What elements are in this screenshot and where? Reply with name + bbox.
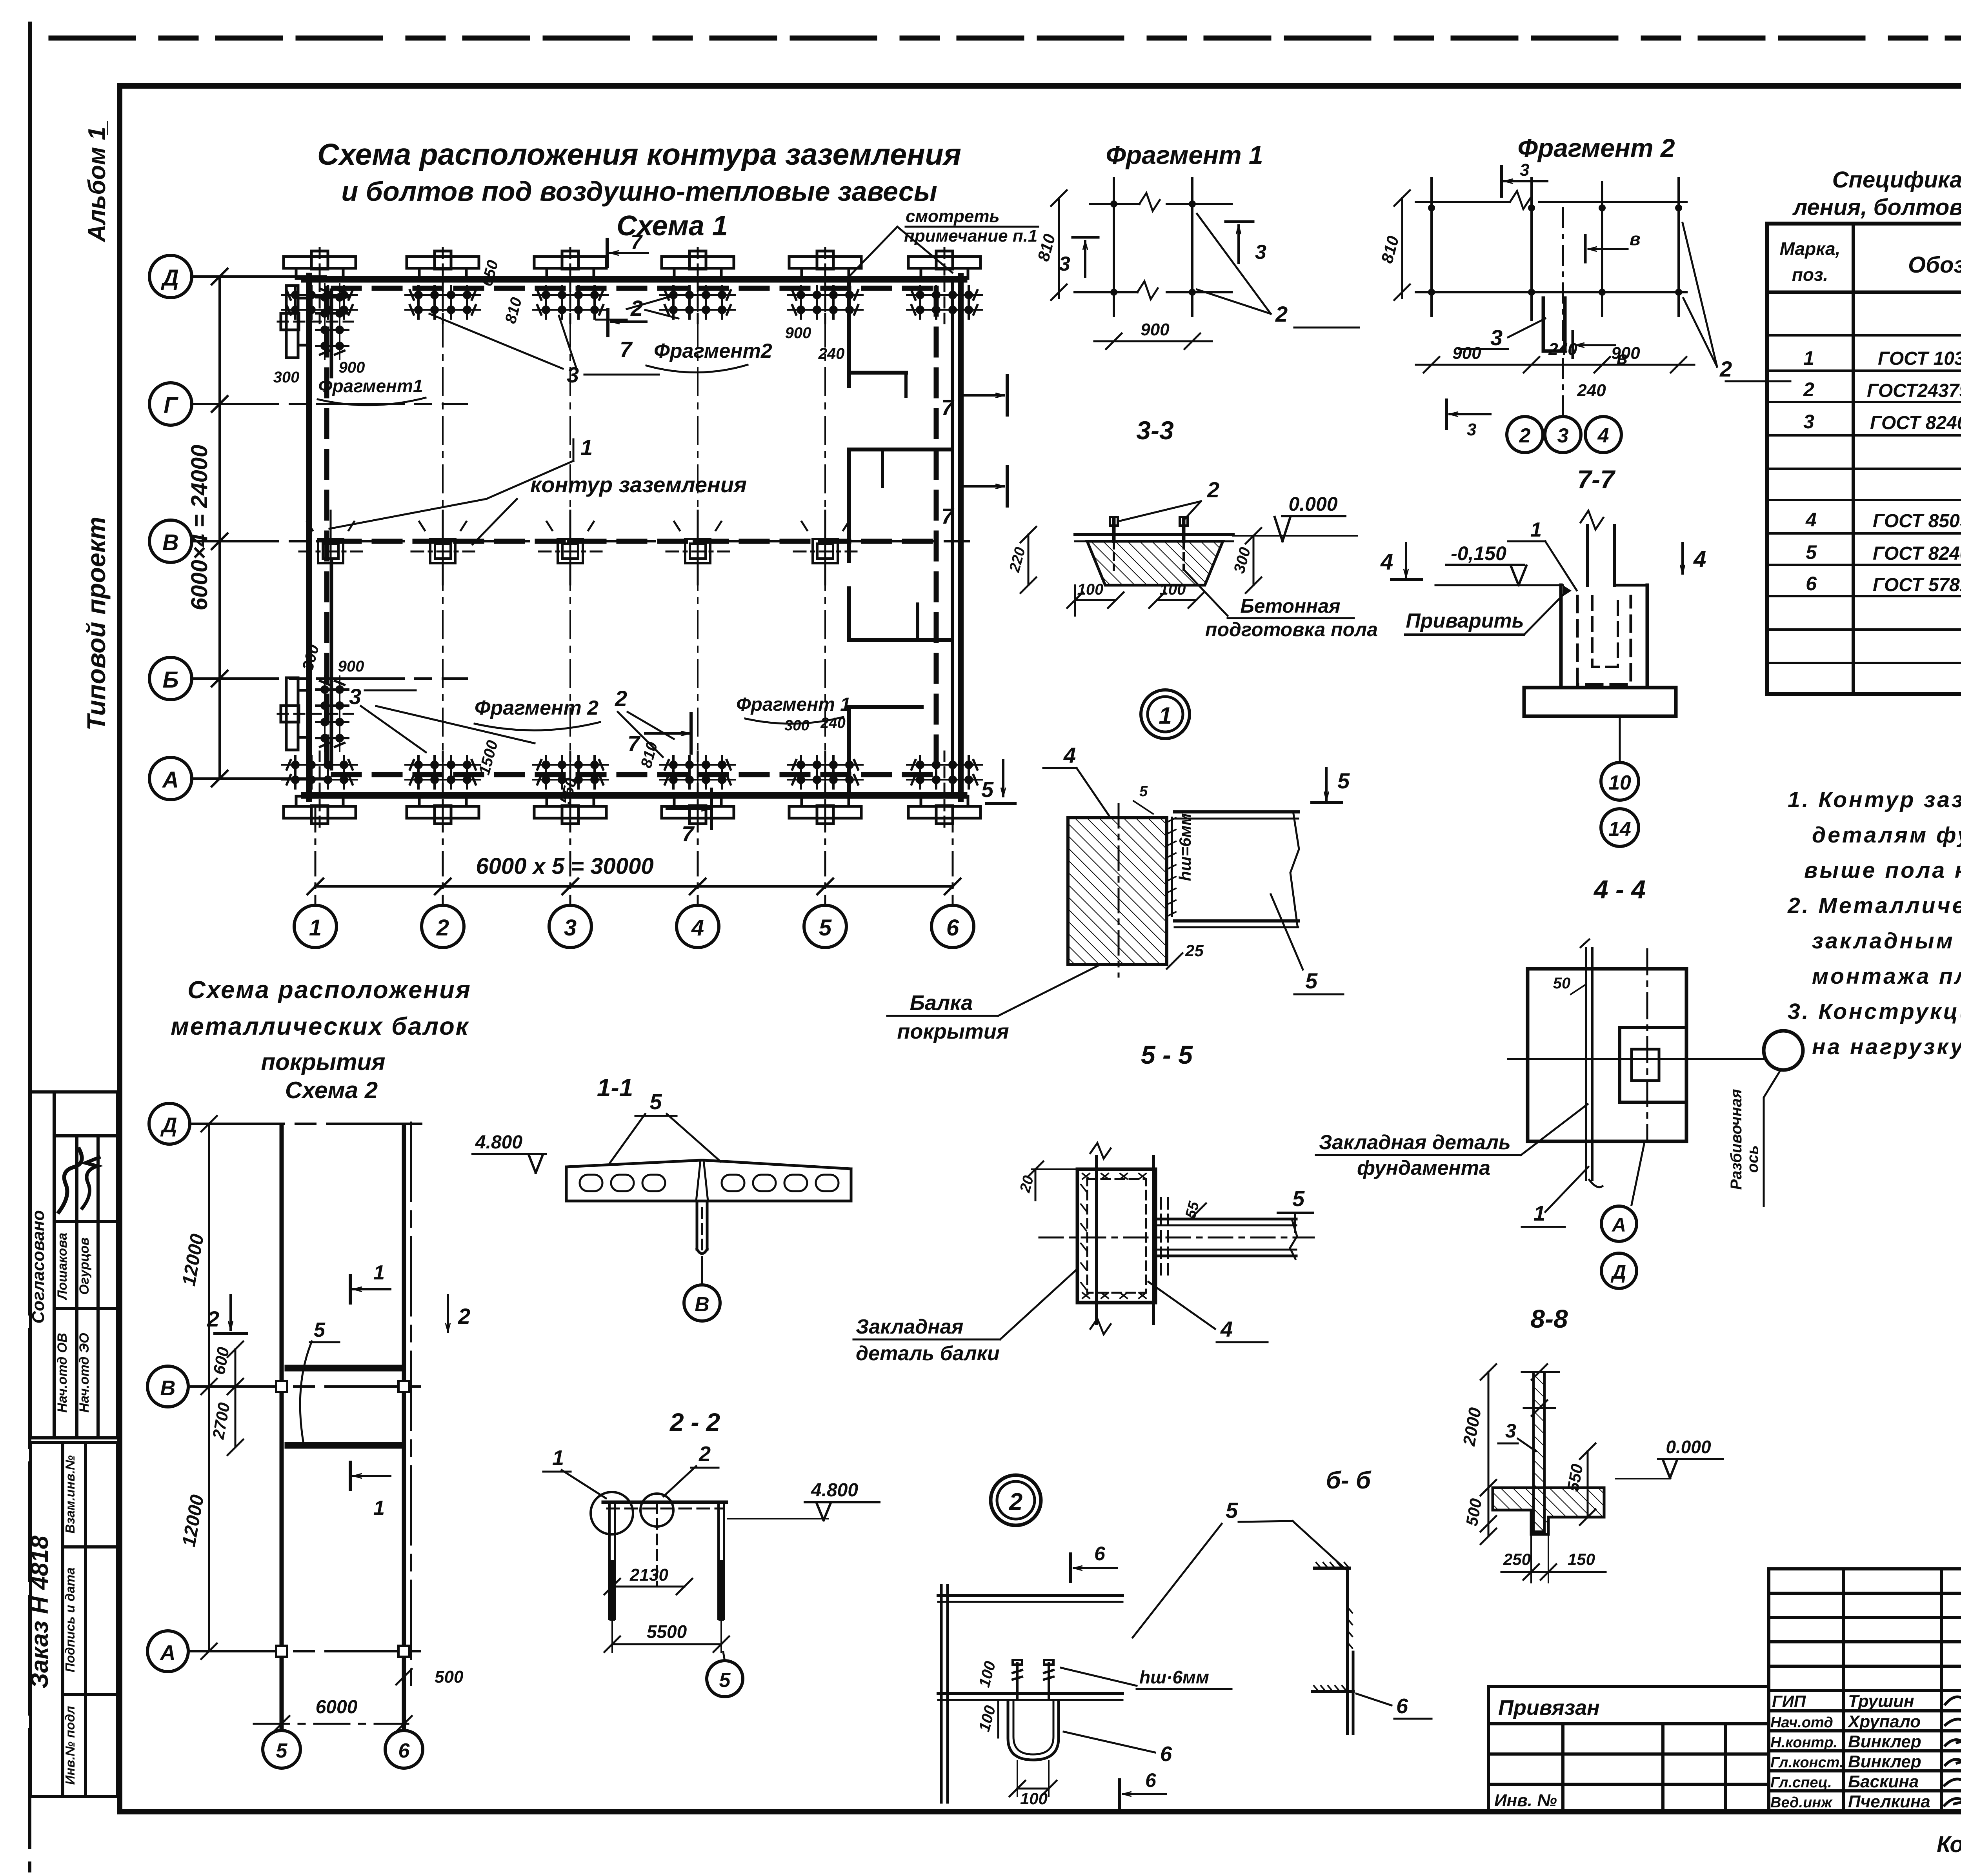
axis circle 5 of 2-2 <box>707 1652 743 1697</box>
weld seam on wall face <box>1168 818 1176 916</box>
svg-text:Винклер: Винклер <box>1848 1732 1921 1751</box>
bolt centreline <box>656 1503 658 1587</box>
svg-text:Н.контр.: Н.контр. <box>1770 1734 1837 1751</box>
svg-text:6: 6 <box>1145 1769 1157 1791</box>
svg-text:покрытия: покрытия <box>897 1020 1009 1043</box>
callout 3 top with V leaders <box>429 314 659 387</box>
callout 3 of post <box>1498 1420 1536 1451</box>
signature squiggle 2 <box>82 1157 99 1208</box>
axis circle Д <box>1601 1253 1637 1288</box>
svg-text:2: 2 <box>1275 302 1288 326</box>
left dim line schema2 <box>178 1116 217 1659</box>
section mark 2 down left <box>207 1295 246 1334</box>
anchor bolt right <box>1180 517 1188 570</box>
bolt group top axis2 <box>405 248 480 323</box>
svg-text:подготовка пола: подготовка пола <box>1205 619 1378 640</box>
beam break mark right <box>1290 1221 1297 1259</box>
spec table grid <box>1767 224 1961 694</box>
svg-text:Баскина: Баскина <box>1848 1772 1919 1791</box>
anchor pocket small <box>1632 1049 1659 1081</box>
svg-text:6000×4 = 24000: 6000×4 = 24000 <box>187 445 212 611</box>
svg-text:Согласовано: Согласовано <box>29 1210 48 1323</box>
svg-text:240: 240 <box>818 345 845 362</box>
svg-text:5: 5 <box>314 1319 326 1341</box>
svg-text:5: 5 <box>981 777 994 802</box>
svg-text:5500: 5500 <box>647 1621 687 1642</box>
svg-text:2: 2 <box>1207 477 1219 502</box>
svg-text:4.800: 4.800 <box>475 1132 522 1153</box>
callout 4 of plate <box>1148 1282 1268 1342</box>
svg-text:Пчелкина: Пчелкина <box>1848 1792 1930 1811</box>
fragment 1 dim 810 <box>1034 190 1067 300</box>
dim 100 rotated lower <box>976 1701 999 1738</box>
svg-text:Д: Д <box>1610 1261 1626 1283</box>
svg-text:hш·6мм: hш·6мм <box>1139 1667 1209 1687</box>
svg-text:4: 4 <box>691 915 704 941</box>
svg-text:5: 5 <box>719 1669 731 1692</box>
svg-text:деталь балки: деталь балки <box>856 1342 1000 1365</box>
svg-text:900: 900 <box>339 359 365 376</box>
grounding contour middle run (axis В) <box>333 539 937 544</box>
marker circle 10 <box>1601 762 1639 800</box>
svg-text:примечание п.1: примечание п.1 <box>904 226 1037 246</box>
callout 3 bottom <box>349 684 535 752</box>
left stamp: Заказ / Инв table <box>26 1443 118 1796</box>
svg-text:7-7: 7-7 <box>1577 465 1616 494</box>
fragment 2 axis circle 2 <box>1507 417 1543 453</box>
svg-text:4: 4 <box>1805 509 1817 531</box>
schema 2 title <box>171 976 471 1103</box>
dim 500 rotated <box>1462 1480 1496 1544</box>
section flag 7 right b <box>941 467 1007 528</box>
callout 2 bottom <box>615 686 674 757</box>
closure strip vertical <box>1581 939 1603 1187</box>
svg-text:3: 3 <box>1490 325 1503 350</box>
axis line А schema2 <box>188 1650 431 1652</box>
fragment 1 section mark 3 up right <box>1226 222 1266 264</box>
bolt group bottom axis3 <box>533 751 608 827</box>
axis circle А <box>149 757 192 800</box>
uzel bolts <box>1013 1660 1053 1698</box>
svg-text:Типовой проект: Типовой проект <box>82 517 111 731</box>
section flag 7 right a <box>941 376 1007 420</box>
spec row 5 <box>1806 541 1961 564</box>
node marker circled 2 <box>991 1475 1041 1525</box>
cross beams pos 5 <box>288 1365 400 1372</box>
bolt group top axis6 <box>907 248 982 323</box>
svg-text:2: 2 <box>615 686 627 711</box>
bottom axis stub 5 <box>824 808 826 904</box>
foundation hatch of post <box>1493 1488 1604 1534</box>
fragment 2 grid lines <box>1416 178 1686 320</box>
callout 5 of beam end <box>1278 1186 1313 1232</box>
fragment 2 callout 2 <box>1683 223 1790 381</box>
svg-text:900: 900 <box>1141 320 1170 339</box>
axis circle А schema2 <box>147 1631 188 1672</box>
level mark 0.000 <box>1233 493 1357 541</box>
position marker circled 1 <box>1141 690 1190 739</box>
svg-text:ГОСТ 8240- 72*: ГОСТ 8240- 72* <box>1873 543 1961 564</box>
svg-text:2: 2 <box>699 1442 711 1466</box>
callout 1 <box>543 1446 606 1498</box>
svg-text:Закладная: Закладная <box>856 1316 963 1338</box>
axis number circle 3 <box>549 905 591 948</box>
svg-text:4: 4 <box>1380 549 1393 575</box>
dim 100 rotated upper <box>976 1659 999 1689</box>
rooms wall horizontal 3 <box>849 638 952 642</box>
svg-text:А: А <box>1611 1214 1626 1236</box>
svg-text:2. Металлические балки (поз.: 2. Металлические балки (поз. 4,5) привар… <box>1787 893 1961 918</box>
svg-text:5: 5 <box>1139 783 1148 800</box>
axis circle В of section 1-1 <box>684 1285 720 1321</box>
svg-text:7: 7 <box>628 731 641 756</box>
axis number circle 1 <box>294 905 337 948</box>
svg-text:В: В <box>695 1293 709 1316</box>
label Закладная деталь балки <box>856 1316 1000 1365</box>
svg-text:Подпись и дата: Подпись и дата <box>63 1567 77 1672</box>
svg-text:4: 4 <box>1597 424 1609 447</box>
dim 100 bottom <box>1010 1761 1057 1808</box>
frame left leg <box>608 1502 611 1619</box>
section mark 5 down near axis6 <box>981 760 1015 803</box>
svg-text:3-3: 3-3 <box>1136 416 1173 445</box>
spec row 4 <box>1805 509 1961 531</box>
notes text block <box>1787 787 1961 1059</box>
svg-text:в: в <box>1630 229 1641 249</box>
svg-text:7: 7 <box>631 231 643 254</box>
fragment 1 section mark 3 up left <box>1059 237 1098 277</box>
svg-text:5: 5 <box>649 1089 662 1114</box>
axis circle Д <box>149 255 192 298</box>
section arrow 5 right of beam <box>1312 768 1350 802</box>
angle top flange <box>1315 1567 1349 1570</box>
beam flange lines to right <box>1155 1218 1296 1221</box>
label Фрагмент 2 bottom <box>475 697 600 730</box>
column shafts <box>1090 1143 1153 1334</box>
svg-text:5: 5 <box>1226 1498 1238 1523</box>
svg-text:Марка,: Марка, <box>1780 238 1841 259</box>
beam break mark <box>1290 814 1299 926</box>
spec row 6 <box>1806 573 1961 595</box>
svg-text:0.000: 0.000 <box>1288 493 1337 515</box>
signature squiggle 1 <box>59 1149 82 1212</box>
svg-text:3: 3 <box>1557 424 1569 447</box>
svg-text:и болтов под воздушно-тепловы: и болтов под воздушно-тепловые завесы <box>341 176 937 207</box>
svg-text:4 - 4: 4 - 4 <box>1593 875 1646 904</box>
callout 5 of beam <box>1271 894 1343 994</box>
dim 550 rotated <box>1563 1443 1595 1525</box>
building left wall <box>306 276 312 799</box>
svg-text:1: 1 <box>1803 347 1814 369</box>
section flag 6 top <box>1071 1543 1117 1581</box>
column plate axis В-3 <box>539 511 602 584</box>
svg-text:6: 6 <box>1806 573 1817 595</box>
svg-text:1: 1 <box>1530 519 1542 541</box>
riser line to marker circles <box>1619 718 1621 762</box>
bolt group top axis4 <box>660 248 735 323</box>
svg-text:6000: 6000 <box>316 1697 358 1718</box>
section arrow 4 left <box>1380 543 1422 580</box>
axis line В schema2 <box>188 1385 431 1388</box>
bottom axis stub 1 <box>315 808 317 904</box>
svg-text:2 - 2: 2 - 2 <box>669 1408 720 1436</box>
svg-text:3: 3 <box>349 684 361 709</box>
axis number circle 5 <box>804 905 846 948</box>
riser lines to circles 5 6 <box>281 1729 283 1730</box>
svg-text:б- б: б- б <box>1326 1467 1372 1494</box>
svg-text:1. Контур заземления (поз.1): 1. Контур заземления (поз.1) приварить к… <box>1788 787 1961 812</box>
svg-text:контур заземления: контур заземления <box>530 472 747 497</box>
rooms wall horizontal 1 <box>849 371 906 375</box>
centreline axis 6 <box>410 1123 412 1687</box>
axis line Б <box>192 677 467 680</box>
bolt group top axis3 <box>533 248 608 323</box>
plan column centerline axis3 <box>569 271 571 800</box>
beam line axis 5 <box>280 1125 284 1729</box>
svg-text:2: 2 <box>458 1304 470 1328</box>
svg-text:240: 240 <box>820 715 845 731</box>
bottom axis stub 2 <box>442 808 444 904</box>
svg-text:6: 6 <box>946 915 959 941</box>
svg-text:ГОСТ 5781- 82*: ГОСТ 5781- 82* <box>1873 575 1961 595</box>
hollow core slabs <box>566 1160 851 1201</box>
svg-text:3: 3 <box>1059 253 1070 275</box>
svg-text:4.800: 4.800 <box>811 1480 858 1501</box>
bolt group top axis5 <box>788 248 863 323</box>
svg-text:Фрагмент2: Фрагмент2 <box>654 340 772 362</box>
section flag 1 upper <box>350 1261 390 1303</box>
svg-text:25: 25 <box>1185 941 1204 960</box>
svg-text:В: В <box>162 530 179 555</box>
grounding contour left run <box>324 288 329 775</box>
svg-text:2: 2 <box>436 915 449 941</box>
column plate axis В-1 <box>299 511 362 584</box>
svg-text:3: 3 <box>567 362 579 387</box>
svg-text:Привязан: Привязан <box>1498 1696 1600 1720</box>
svg-text:Фрагмент 2: Фрагмент 2 <box>475 697 598 719</box>
building right wall <box>958 276 964 799</box>
fragment 2 section flag 3 top <box>1501 160 1547 196</box>
fragment 2 dim 810 <box>1377 190 1410 300</box>
bolt group left wall top (vertical) <box>278 284 353 359</box>
svg-text:6: 6 <box>1160 1742 1172 1766</box>
svg-text:Разбивочная: Разбивочная <box>1728 1089 1745 1190</box>
svg-text:7: 7 <box>941 504 955 528</box>
slab voids <box>580 1175 839 1191</box>
svg-text:1: 1 <box>552 1446 564 1470</box>
svg-text:3. Конструкция балки (поз.5): 3. Конструкция балки (поз.5) расчитана <box>1788 999 1961 1024</box>
room door stubs <box>881 449 884 486</box>
grounding contour top run <box>333 286 941 291</box>
svg-text:2: 2 <box>207 1306 219 1331</box>
svg-text:hш=6мм: hш=6мм <box>1176 813 1194 881</box>
spec row 3 <box>1803 411 1961 433</box>
axis line А <box>192 777 326 780</box>
centerline horizontal to marker <box>1508 1058 1763 1060</box>
U-bolt <box>1008 1701 1059 1760</box>
svg-text:900: 900 <box>338 658 364 675</box>
svg-text:2130: 2130 <box>629 1565 668 1585</box>
bottom dimension line 6000x5=30000 <box>307 853 960 894</box>
bolt group left wall bottom (vertical) <box>278 676 353 751</box>
svg-text:Бетонная: Бетонная <box>1240 595 1340 617</box>
svg-text:поз.: поз. <box>1792 264 1828 285</box>
svg-text:10: 10 <box>1608 772 1631 794</box>
svg-text:7: 7 <box>682 821 695 846</box>
signature squiggles <box>1945 1694 1961 1807</box>
svg-text:5: 5 <box>819 915 832 941</box>
svg-text:4: 4 <box>1220 1317 1233 1341</box>
section flag 7 top <box>607 231 648 267</box>
svg-text:3: 3 <box>1467 420 1476 439</box>
building bottom wall <box>304 792 964 799</box>
axis line В <box>192 540 969 542</box>
svg-text:14: 14 <box>1608 818 1631 841</box>
svg-text:покрытия: покрытия <box>261 1049 386 1075</box>
fragment 1 grid lines <box>1075 178 1232 316</box>
section flag 1 lower <box>350 1462 390 1519</box>
svg-text:3: 3 <box>1505 1420 1516 1442</box>
spec row 1 <box>1803 347 1961 369</box>
dim 220 rotated <box>1006 527 1036 593</box>
beam centreline <box>1039 1237 1314 1239</box>
svg-text:2: 2 <box>1009 1488 1022 1516</box>
foundation body 7-7 <box>1435 585 1676 716</box>
roof beam top flange <box>1175 810 1298 813</box>
fragment 2 bolt crosses <box>1428 204 1682 296</box>
dim 300 rotated <box>1231 528 1261 593</box>
label контур заземления with leaders <box>329 435 747 544</box>
svg-text:300: 300 <box>273 369 300 386</box>
section flag 6 bottom <box>1120 1769 1166 1807</box>
fragment 2 section mark в upper <box>1585 229 1641 262</box>
title block privyazan strip <box>1488 1687 1769 1811</box>
beam line axis 6 <box>402 1125 406 1729</box>
svg-text:Гл.конст.: Гл.конст. <box>1770 1754 1843 1771</box>
note callout смотреть примечание п.1 <box>848 207 1038 278</box>
svg-text:Фрагмент1: Фрагмент1 <box>318 376 423 396</box>
building top wall <box>304 276 964 283</box>
level 4.800 <box>473 1132 546 1173</box>
svg-text:150: 150 <box>1568 1550 1595 1568</box>
bottom axis stub 3 <box>569 808 571 904</box>
axis circle Г <box>149 383 192 425</box>
svg-text:3: 3 <box>564 915 577 941</box>
svg-text:900: 900 <box>1452 344 1481 363</box>
svg-text:Г: Г <box>164 393 178 418</box>
level -0,150 <box>1446 542 1526 585</box>
svg-text:Схема расположения контура заз: Схема расположения контура заземления <box>317 138 961 171</box>
post plate hatched <box>1534 1372 1544 1532</box>
svg-text:6: 6 <box>1094 1543 1106 1565</box>
riser to axis circle В <box>701 1257 703 1285</box>
fragment 2 channel pos3 <box>1543 298 1565 351</box>
callout 6 of U-bolt <box>1064 1732 1172 1766</box>
fragment 2 axis circle 3 <box>1545 417 1581 453</box>
bolt group bottom axis4 <box>660 751 735 827</box>
svg-text:Хрупало: Хрупало <box>1847 1712 1921 1731</box>
svg-text:4: 4 <box>1693 546 1706 572</box>
frame top beam <box>603 1501 726 1504</box>
svg-text:А: А <box>162 767 179 793</box>
axis circle Д schema2 <box>149 1103 190 1144</box>
column plate axis В-4 <box>666 511 729 584</box>
dim 2130 <box>604 1565 692 1594</box>
anchor bolt left <box>1110 517 1118 570</box>
callout 2 of section 3-3 <box>1120 477 1219 521</box>
uzel beam left column <box>941 1585 948 1802</box>
svg-text:Трушин: Трушин <box>1848 1692 1914 1711</box>
roof beam bottom flange <box>1175 919 1298 923</box>
plan column centerline axis2 <box>442 271 444 800</box>
svg-text:1: 1 <box>1534 1202 1545 1225</box>
section flag 7 below plan <box>667 789 711 846</box>
svg-text:900: 900 <box>785 324 811 342</box>
centerline vertical <box>1646 949 1648 1142</box>
uzel beam top flange <box>938 1594 1122 1597</box>
svg-text:5: 5 <box>276 1740 288 1762</box>
svg-text:Альбом 1̲: Альбом 1̲ <box>84 121 111 243</box>
column shaft above foundation <box>1581 511 1614 585</box>
svg-text:ось: ось <box>1744 1145 1761 1173</box>
svg-text:1: 1 <box>373 1497 385 1519</box>
axis number circle 6 <box>931 905 974 948</box>
svg-text:3: 3 <box>1255 241 1266 264</box>
svg-text:100: 100 <box>1077 581 1104 598</box>
svg-text:2: 2 <box>1519 424 1531 447</box>
label Фрагмент1 top-left <box>318 376 426 405</box>
rooms wall horizontal 4 <box>849 705 922 709</box>
slab top lines <box>1075 533 1233 536</box>
column plate axis В-2 <box>411 511 474 584</box>
level 4.800 of 2-2 <box>728 1480 879 1520</box>
dim 5500 <box>604 1620 729 1652</box>
dim 2000 rotated <box>1459 1364 1496 1532</box>
callout 4 to wall <box>1043 743 1109 816</box>
angle profile web <box>1346 1568 1349 1734</box>
left wall inner leaf <box>330 290 333 377</box>
axis circle В schema2 <box>147 1366 188 1407</box>
axis line Д schema2 <box>190 1123 427 1125</box>
foundation plate plan <box>1528 969 1686 1141</box>
svg-text:2: 2 <box>1803 378 1814 400</box>
dim 100 left <box>1067 581 1124 616</box>
svg-text:ГОСТ 8240-72*: ГОСТ 8240-72* <box>1870 413 1961 433</box>
svg-text:250: 250 <box>1503 1550 1531 1568</box>
fragment 1 dim 900 <box>1094 320 1212 349</box>
fragment 2 callout 3 <box>1459 318 1545 350</box>
axis circle 6 schema2 <box>385 1730 423 1768</box>
svg-text:240: 240 <box>1577 381 1606 400</box>
callout circle on left joint <box>591 1492 633 1534</box>
inner pocket <box>1620 1028 1686 1102</box>
axis circle Б <box>149 657 192 700</box>
svg-text:Схема 2: Схема 2 <box>285 1077 378 1103</box>
svg-text:Схема расположения: Схема расположения <box>187 976 471 1004</box>
svg-text:7: 7 <box>620 337 633 362</box>
callout 1 of strip <box>1522 1167 1588 1227</box>
svg-text:Огурцов: Огурцов <box>77 1237 92 1295</box>
fragment 2 axis stub to circle 3 <box>1562 208 1564 416</box>
dim 500 schema2 <box>396 1663 464 1690</box>
label Приварить <box>1405 593 1565 635</box>
concrete hatch body <box>1087 541 1223 585</box>
svg-text:1: 1 <box>373 1261 385 1284</box>
dim 6000 schema2 <box>254 1697 412 1732</box>
svg-text:Приварить: Приварить <box>1406 610 1524 632</box>
svg-text:1: 1 <box>1159 702 1172 729</box>
svg-text:-0,150: -0,150 <box>1451 542 1506 564</box>
